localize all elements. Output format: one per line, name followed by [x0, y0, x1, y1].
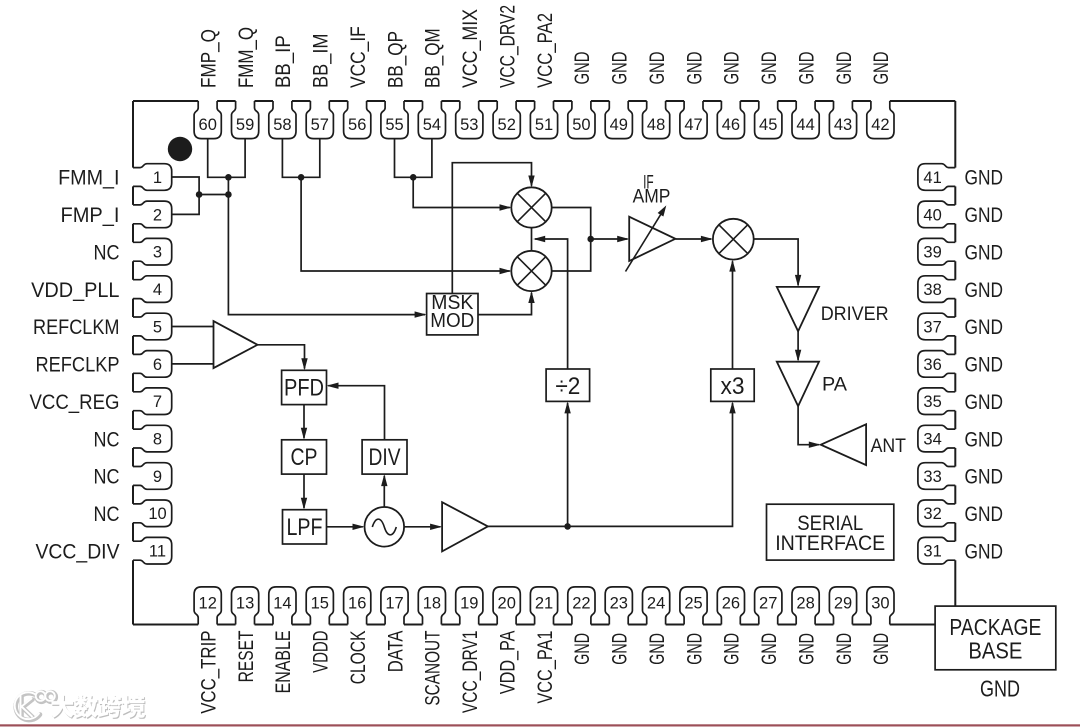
svg-text:37: 37	[923, 318, 941, 336]
svg-text:÷2: ÷2	[555, 373, 580, 400]
svg-text:GND: GND	[721, 52, 744, 85]
svg-text:GND: GND	[833, 52, 856, 85]
svg-text:GND: GND	[758, 633, 781, 665]
svg-text:23: 23	[610, 594, 628, 612]
svg-text:34: 34	[923, 431, 941, 449]
svg-text:LPF: LPF	[287, 514, 323, 541]
svg-text:VDDD: VDDD	[310, 631, 333, 673]
pin 23 (GND)	[605, 587, 632, 625]
svg-text:FMP_I: FMP_I	[61, 204, 120, 227]
svg-text:39: 39	[923, 244, 941, 262]
svg-text:13: 13	[236, 594, 254, 612]
svg-text:41: 41	[923, 169, 941, 187]
svg-text:VCC_REG: VCC_REG	[30, 391, 120, 414]
svg-text:GND: GND	[965, 167, 1004, 190]
pin 21 (VCC_PA1)	[530, 587, 557, 625]
svg-text:GND: GND	[609, 52, 632, 85]
svg-text:AMP: AMP	[633, 186, 671, 207]
wire multiplier x3 to mixer M3 LO	[732, 261, 734, 369]
wire MSK MOD to mixer M1 bottom	[478, 293, 532, 315]
svg-text:VCC_DRV2: VCC_DRV2	[497, 5, 520, 88]
svg-text:15: 15	[311, 594, 329, 612]
svg-text:22: 22	[572, 594, 590, 612]
VCO oscillator	[365, 507, 405, 547]
wire pin 2 FMP_I	[172, 195, 199, 215]
svg-text:17: 17	[385, 594, 403, 612]
wire summed IF to IF AMP	[591, 238, 628, 240]
svg-text:GND: GND	[965, 204, 1004, 227]
wire VCO to DIV	[383, 476, 385, 507]
svg-text:1: 1	[153, 169, 162, 187]
svg-text:54: 54	[423, 116, 441, 134]
svg-text:VCC_TRIP: VCC_TRIP	[198, 631, 221, 714]
junction mixer outputs	[587, 236, 594, 243]
svg-text:4: 4	[153, 281, 162, 299]
svg-text:MOD: MOD	[430, 310, 474, 332]
svg-text:5: 5	[153, 318, 162, 336]
pin 59 (FMM_Q)	[232, 101, 259, 139]
svg-text:GND: GND	[758, 52, 781, 85]
svg-text:ENABLE: ENABLE	[272, 631, 295, 694]
svg-text:DRIVER: DRIVER	[821, 304, 889, 325]
pin 49 (GND)	[605, 101, 632, 139]
pin 55 (BB_QP)	[381, 101, 408, 139]
wire DRIVER to PA	[797, 331, 799, 360]
chip outline U1 (edges with pin-neck openings)	[133, 101, 955, 625]
junction pins 1/2	[196, 191, 203, 198]
block LPF	[283, 510, 327, 544]
pin 15 (VDDD)	[306, 587, 333, 625]
wire pin 1 FMM_I	[172, 177, 199, 195]
svg-text:10: 10	[148, 505, 166, 523]
arrow into mixer M3 bottom	[729, 260, 735, 272]
label IF AMP	[633, 172, 671, 207]
pin 33 (GND)	[918, 463, 955, 490]
svg-text:CLOCK: CLOCK	[347, 631, 370, 685]
pin 6 (REFCLKP)	[133, 351, 172, 378]
block divider /2	[546, 369, 590, 401]
svg-text:11: 11	[149, 543, 166, 561]
pin 1 (FMM_I)	[133, 164, 172, 191]
pin 7 (VCC_REG)	[133, 388, 172, 415]
svg-text:FMM_I: FMM_I	[58, 167, 119, 190]
pin 29 (GND)	[829, 587, 856, 625]
mixer M1 (lower, I-channel)	[511, 251, 551, 291]
svg-text:VCC_PA1: VCC_PA1	[534, 631, 557, 704]
svg-text:55: 55	[385, 116, 403, 134]
svg-text:PFD: PFD	[284, 375, 324, 402]
svg-text:VCC_IF: VCC_IF	[347, 26, 370, 88]
wire FM net to MSK MOD input	[199, 177, 425, 314]
LO buffer amplifier	[442, 502, 488, 551]
svg-text:GND: GND	[965, 503, 1004, 526]
svg-text:32: 32	[923, 505, 941, 523]
svg-text:NC: NC	[94, 503, 120, 526]
pin 58 (BB_IP)	[269, 101, 296, 139]
svg-text:VCC_MIX: VCC_MIX	[459, 9, 482, 88]
arrow into CP	[301, 428, 307, 440]
pin 53 (VCC_MIX)	[456, 101, 483, 139]
svg-text:31: 31	[923, 543, 941, 561]
pin 44 (GND)	[792, 101, 819, 139]
svg-text:58: 58	[273, 116, 291, 134]
pin 11 (VCC_DIV)	[133, 537, 172, 564]
svg-text:33: 33	[923, 468, 941, 486]
svg-text:42: 42	[871, 116, 889, 134]
svg-text:PACKAGE: PACKAGE	[949, 614, 1041, 640]
pin 38 (GND)	[918, 276, 955, 303]
svg-text:GND: GND	[870, 52, 893, 85]
svg-text:3: 3	[153, 244, 162, 262]
svg-text:GND: GND	[965, 241, 1004, 264]
svg-text:BB_IP: BB_IP	[272, 35, 295, 88]
pin 40 (GND)	[918, 201, 955, 228]
svg-text:GND: GND	[609, 633, 632, 665]
block SERIAL INTERFACE	[767, 504, 894, 560]
wire DIV to PFD feedback	[328, 386, 384, 440]
svg-text:51: 51	[535, 116, 553, 134]
svg-text:BB_IM: BB_IM	[310, 34, 333, 89]
svg-text:16: 16	[348, 594, 366, 612]
svg-text:GND: GND	[683, 52, 706, 85]
pin 32 (GND)	[918, 500, 955, 527]
svg-text:GND: GND	[795, 633, 818, 665]
junction LO distribution	[564, 523, 571, 530]
arrow into DRIVER	[795, 275, 801, 287]
pin 54 (BB_QM)	[418, 101, 445, 139]
ANT buffer	[821, 424, 866, 465]
svg-text:12: 12	[199, 594, 217, 612]
wire pins 58/57 BB_I pair to mixer M1 input	[282, 138, 509, 271]
block CP	[282, 440, 327, 474]
svg-text:18: 18	[423, 594, 441, 612]
svg-text:30: 30	[871, 594, 889, 612]
wire LPF to VCO	[327, 526, 363, 528]
svg-text:36: 36	[923, 356, 941, 374]
wire pin 6 REFCLKP to ref buffer	[172, 363, 214, 365]
svg-text:GND: GND	[965, 428, 1004, 451]
pin 12 (VCC_TRIP)	[194, 587, 221, 625]
mixer M2 (upper, Q-channel)	[511, 187, 551, 227]
svg-text:2: 2	[153, 206, 162, 224]
pin 46 (GND)	[717, 101, 744, 139]
svg-text:GND: GND	[870, 633, 893, 665]
wire VCO to LO buffer	[404, 526, 440, 528]
wire MSK MOD to mixer M2 top	[452, 163, 531, 294]
svg-text:GND: GND	[571, 633, 594, 665]
svg-text:VDD_PLL: VDD_PLL	[31, 279, 119, 302]
mixer M3 (upconverter)	[713, 219, 754, 260]
pin 28 (GND)	[792, 587, 819, 625]
arrow into IF AMP	[617, 236, 629, 242]
arrow into mixer M2	[500, 204, 512, 210]
svg-text:GND: GND	[980, 676, 1020, 702]
pin 16 (CLOCK)	[344, 587, 371, 625]
pin 5 (REFCLKM)	[133, 313, 172, 340]
arrow into VCO	[353, 524, 365, 530]
pin 57 (BB_IM)	[306, 101, 333, 139]
wire pins 55/54 BB_Q pair to mixer M2 input	[395, 138, 510, 208]
pin 56 (VCC_IF)	[344, 101, 371, 139]
wire ref buffer to PFD	[258, 345, 305, 369]
arrow into /2 bottom	[564, 401, 570, 413]
svg-text:BASE: BASE	[968, 638, 1022, 664]
pin 17 (DATA)	[381, 587, 408, 625]
pin 3 (NC)	[133, 238, 172, 265]
pin 47 (GND)	[680, 101, 707, 139]
wire LO buffer to multiplier x3	[488, 403, 733, 526]
watermark text	[52, 696, 146, 719]
pin 37 (GND)	[918, 313, 955, 340]
pin 45 (GND)	[755, 101, 782, 139]
svg-text:14: 14	[273, 594, 291, 612]
svg-text:REFCLKP: REFCLKP	[36, 354, 120, 377]
pin 25 (GND)	[680, 587, 707, 625]
block PFD	[282, 370, 327, 404]
svg-text:29: 29	[834, 594, 852, 612]
svg-text:GND: GND	[965, 466, 1004, 489]
IF AMP variable gain amplifier	[626, 205, 676, 271]
svg-text:26: 26	[722, 594, 740, 612]
svg-text:25: 25	[684, 594, 702, 612]
block PACKAGE BASE	[935, 606, 1056, 670]
svg-text:GND: GND	[965, 279, 1004, 302]
svg-text:GND: GND	[965, 316, 1004, 339]
svg-text:DATA: DATA	[384, 631, 407, 673]
arrow into MSK MOD	[415, 311, 427, 317]
block DIV	[362, 440, 407, 474]
svg-text:VCC_PA2: VCC_PA2	[534, 13, 557, 88]
block multiplier x3	[711, 369, 754, 401]
svg-text:57: 57	[311, 116, 329, 134]
wire mixer M3 to DRIVER	[754, 239, 798, 285]
svg-text:BB_QM: BB_QM	[422, 28, 445, 88]
svg-text:GND: GND	[571, 52, 594, 85]
junction pins 55/54	[410, 174, 417, 181]
pin 4 (VDD_PLL)	[133, 276, 172, 303]
pin 14 (ENABLE)	[269, 587, 296, 625]
pin 27 (GND)	[755, 587, 782, 625]
svg-text:GND: GND	[646, 633, 669, 665]
junction FM net	[225, 191, 232, 198]
svg-text:NC: NC	[94, 428, 120, 451]
svg-text:BB_QP: BB_QP	[384, 31, 407, 88]
svg-text:60: 60	[199, 116, 217, 134]
svg-text:VCC_DIV: VCC_DIV	[36, 540, 120, 563]
svg-text:6: 6	[153, 356, 162, 374]
pin 24 (GND)	[643, 587, 670, 625]
arrow into mixer M1	[500, 268, 512, 274]
svg-text:GND: GND	[683, 633, 706, 665]
svg-text:GND: GND	[646, 52, 669, 85]
pin 8 (NC)	[133, 425, 172, 452]
arrow into mixer M1 bottom	[528, 291, 534, 303]
pin 13 (RESET)	[232, 587, 259, 625]
svg-text:FMP_Q: FMP_Q	[198, 29, 221, 88]
svg-text:CP: CP	[291, 444, 318, 471]
ref buffer amplifier	[214, 321, 258, 368]
svg-text:VDD_PA: VDD_PA	[497, 631, 520, 695]
svg-text:19: 19	[460, 594, 478, 612]
pin 9 (NC)	[133, 463, 172, 490]
arrow into ANT	[809, 442, 821, 448]
pin 36 (GND)	[918, 351, 955, 378]
wire PFD to CP	[303, 405, 305, 439]
svg-text:53: 53	[460, 116, 478, 134]
junction pins 60/59	[225, 174, 232, 181]
svg-text:GND: GND	[965, 354, 1004, 377]
svg-text:47: 47	[684, 116, 702, 134]
svg-text:38: 38	[923, 281, 941, 299]
arrow into mixer M3	[701, 236, 713, 242]
svg-text:GND: GND	[965, 540, 1004, 563]
pin 34 (GND)	[918, 425, 955, 452]
arrow into mixer M2 top	[528, 176, 534, 188]
pin 26 (GND)	[717, 587, 744, 625]
svg-text:RESET: RESET	[235, 630, 258, 682]
svg-text:27: 27	[759, 594, 777, 612]
pin 50 (GND)	[568, 101, 595, 139]
svg-text:SCANOUT: SCANOUT	[422, 630, 445, 705]
svg-text:NC: NC	[94, 466, 120, 489]
wire CP to LPF	[303, 474, 305, 508]
arrow LO into mixers	[533, 236, 545, 242]
svg-text:56: 56	[348, 116, 366, 134]
pin 22 (GND)	[568, 587, 595, 625]
watermark logo (K100)	[15, 691, 56, 720]
svg-text:GND: GND	[795, 52, 818, 85]
pin 43 (GND)	[829, 101, 856, 139]
svg-text:24: 24	[647, 594, 665, 612]
svg-text:43: 43	[834, 116, 852, 134]
svg-text:DIV: DIV	[369, 444, 401, 471]
svg-text:46: 46	[722, 116, 740, 134]
svg-text:7: 7	[153, 393, 162, 411]
junction pins 58/57	[298, 174, 305, 181]
wire LO connector between mixers	[531, 228, 533, 252]
PA power amplifier	[777, 362, 819, 406]
svg-text:50: 50	[572, 116, 590, 134]
svg-text:PA: PA	[822, 375, 847, 396]
pin 39 (GND)	[918, 238, 955, 265]
pin 2 (FMP_I)	[133, 201, 172, 228]
block MSK MOD	[427, 292, 478, 335]
wire mixer M2 output	[552, 208, 591, 240]
wire divider /2 to mixer LO	[535, 239, 568, 369]
pin 42 (GND)	[867, 101, 894, 139]
arrow into PFD top	[301, 358, 307, 370]
svg-text:GND: GND	[833, 633, 856, 665]
svg-text:20: 20	[498, 594, 516, 612]
pin 30 (GND)	[867, 587, 894, 625]
svg-text:40: 40	[923, 206, 941, 224]
pin 41 (GND)	[918, 164, 955, 191]
pin 20 (VDD_PA)	[493, 587, 520, 625]
pin 19 (VCC_DRV1)	[456, 587, 483, 625]
svg-text:INTERFACE: INTERFACE	[775, 531, 885, 555]
svg-text:59: 59	[236, 116, 254, 134]
pin 18 (SCANOUT)	[418, 587, 445, 625]
pin 35 (GND)	[918, 388, 955, 415]
svg-text:35: 35	[923, 393, 941, 411]
arrow into PA	[795, 350, 801, 362]
pin 48 (GND)	[643, 101, 670, 139]
svg-text:REFCLKM: REFCLKM	[33, 316, 120, 339]
arrow into x3 bottom	[729, 401, 735, 413]
svg-text:21: 21	[535, 594, 553, 612]
pin 1 index marker	[168, 137, 192, 161]
wire pins 60/59 FM-Q pair join	[208, 138, 245, 177]
pin 51 (VCC_PA2)	[530, 101, 557, 139]
pin 31 (GND)	[918, 537, 955, 564]
svg-text:48: 48	[647, 116, 665, 134]
arrow into DIV bottom	[381, 474, 387, 486]
svg-text:45: 45	[759, 116, 777, 134]
wire IF AMP to mixer M3	[675, 238, 711, 240]
svg-text:9: 9	[153, 468, 162, 486]
svg-text:44: 44	[796, 116, 814, 134]
wire PA to ANT	[798, 406, 819, 445]
arrow into PFD right	[327, 383, 339, 389]
svg-text:49: 49	[610, 116, 628, 134]
svg-text:8: 8	[153, 431, 162, 449]
svg-text:52: 52	[498, 116, 516, 134]
arrow into LPF	[301, 498, 307, 510]
pin 10 (NC)	[133, 500, 172, 527]
svg-text:GND: GND	[721, 633, 744, 665]
arrow into LO buffer	[430, 524, 442, 530]
wire pin 5 REFCLKM to ref buffer	[172, 326, 214, 328]
pin 60 (FMP_Q)	[194, 101, 221, 139]
svg-text:x3: x3	[721, 373, 745, 400]
wire mixer M1 output	[552, 239, 591, 271]
footer rule	[0, 724, 1080, 726]
pin 52 (VCC_DRV2)	[493, 101, 520, 139]
wire LO to divider /2	[567, 403, 569, 526]
svg-text:NC: NC	[94, 241, 120, 264]
DRIVER amplifier	[777, 287, 819, 331]
svg-text:VCC_DRV1: VCC_DRV1	[459, 631, 482, 714]
svg-text:28: 28	[796, 594, 814, 612]
svg-text:ANT: ANT	[871, 436, 907, 457]
svg-text:GND: GND	[965, 391, 1004, 414]
svg-text:FMM_Q: FMM_Q	[235, 27, 258, 88]
